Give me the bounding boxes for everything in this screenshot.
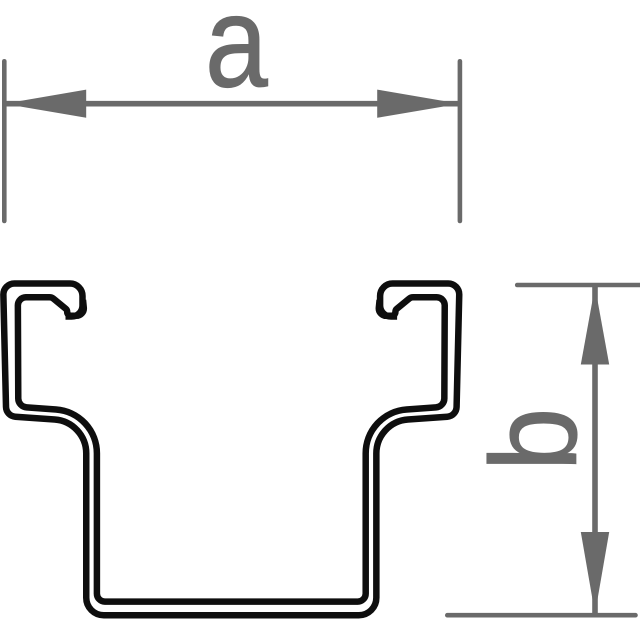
- svg-text:a: a: [205, 0, 268, 114]
- svg-text:b: b: [466, 408, 603, 471]
